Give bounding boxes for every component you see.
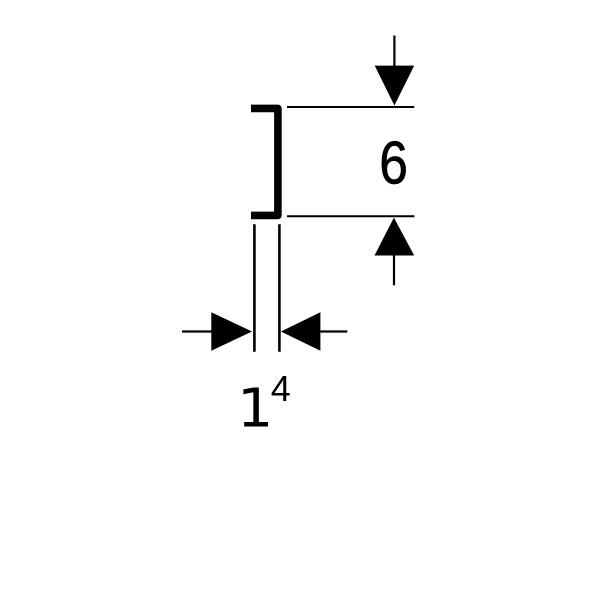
right arrowhead (pointing left) (281, 312, 321, 350)
dimension label 6 (379, 129, 408, 197)
thin wall line left (253, 224, 256, 352)
svg-text:4: 4 (271, 368, 291, 409)
bottom arrowhead (pointing up) (375, 218, 415, 256)
top arrow leader line (393, 36, 395, 68)
bracket profile (C-channel cross-section) (251, 108, 278, 215)
thin wall line right (278, 224, 281, 352)
bottom arrow leader line (393, 255, 395, 285)
top arrowhead (pointing down) (375, 66, 415, 106)
right arrow leader line (320, 330, 347, 332)
dimension label 1 (footed digit) (243, 388, 268, 427)
dimension extension line bottom (287, 215, 414, 217)
left arrowhead (pointing right) (211, 312, 252, 350)
dimension extension line top (287, 106, 414, 108)
svg-text:6: 6 (379, 129, 408, 197)
left arrow leader line (182, 330, 213, 332)
